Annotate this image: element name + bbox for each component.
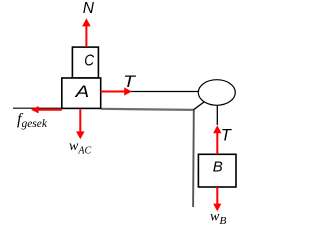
svg-text:B: B bbox=[213, 159, 223, 176]
svg-text:A: A bbox=[74, 83, 89, 101]
svg-text:wAC: wAC bbox=[69, 139, 91, 156]
svg-text:N: N bbox=[83, 0, 95, 17]
svg-text:C: C bbox=[84, 53, 94, 70]
svg-text:fgesek: fgesek bbox=[17, 111, 48, 130]
svg-text:T: T bbox=[123, 73, 137, 91]
svg-text:wB: wB bbox=[210, 210, 227, 228]
svg-text:T: T bbox=[221, 126, 233, 144]
